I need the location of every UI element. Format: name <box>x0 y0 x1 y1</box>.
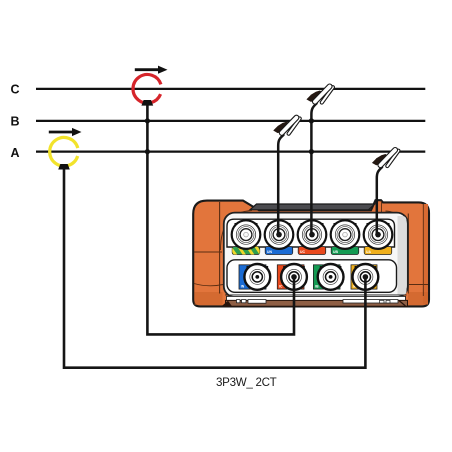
svg-text:3P3W_ 2CT: 3P3W_ 2CT <box>216 376 277 389</box>
svg-text:IB: IB <box>315 284 319 288</box>
svg-text:IC: IC <box>279 284 283 288</box>
svg-text:IN: IN <box>241 284 245 288</box>
svg-text:UC: UC <box>300 250 305 254</box>
svg-text:UN: UN <box>267 250 272 254</box>
svg-text:A: A <box>11 146 20 160</box>
svg-text:C: C <box>11 83 20 97</box>
svg-text:B: B <box>11 115 20 129</box>
svg-text:UA: UA <box>366 250 371 254</box>
svg-text:UB: UB <box>333 250 338 254</box>
